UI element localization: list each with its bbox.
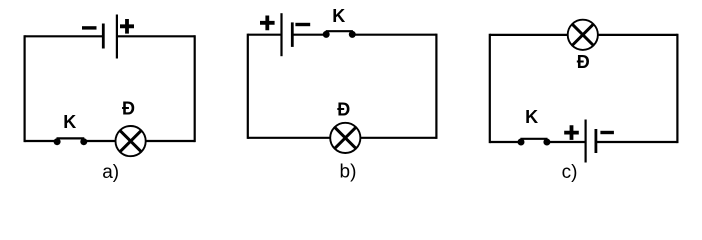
battery a long positive plate bbox=[116, 15, 118, 59]
svg-text:K: K bbox=[332, 6, 345, 26]
wire: c bottom segment corner to switch bbox=[490, 141, 521, 143]
svg-text:K: K bbox=[525, 107, 538, 127]
wire: b bottom-right segment from lamp bbox=[360, 137, 436, 139]
svg-text:K: K bbox=[63, 112, 76, 132]
switch K c: right contact dot bbox=[543, 139, 550, 146]
switch K a: closed lever bbox=[57, 137, 85, 139]
wire: b bottom-left segment to lamp bbox=[248, 137, 330, 139]
svg-text:b): b) bbox=[340, 162, 357, 183]
svg-text:c): c) bbox=[562, 162, 578, 183]
wire: a right side bbox=[194, 35, 196, 142]
wire: b left side bbox=[247, 34, 249, 139]
lamp D a: cross bbox=[120, 130, 141, 151]
wire: a left side bbox=[24, 35, 26, 142]
lamp D b: circle bbox=[330, 123, 360, 153]
wire: c top-right segment from lamp bbox=[598, 34, 678, 36]
svg-text:Đ: Đ bbox=[577, 52, 590, 72]
battery a short negative plate bbox=[102, 24, 105, 49]
wire: a top-left segment bbox=[25, 35, 103, 37]
svg-text:a): a) bbox=[102, 162, 119, 183]
wire: c top-left segment to lamp bbox=[490, 34, 568, 36]
wire: b top segment battery to switch bbox=[292, 34, 326, 36]
minus sign a bbox=[82, 26, 97, 29]
switch K b: closed lever bbox=[326, 30, 353, 32]
wire: c segment switch to battery bbox=[547, 141, 586, 143]
wire: c right side bbox=[676, 34, 678, 143]
switch K a: right contact dot bbox=[80, 138, 87, 145]
wire: b top segment corner to battery bbox=[248, 34, 282, 36]
wire: a bottom-left segment to switch bbox=[25, 140, 57, 142]
wire: a bottom-right segment from lamp bbox=[146, 140, 195, 142]
plus sign c bbox=[564, 125, 579, 140]
switch K c: left contact dot bbox=[518, 139, 525, 146]
switch K c: closed lever bbox=[520, 138, 547, 140]
battery b long positive plate bbox=[280, 13, 282, 56]
lamp D a: circle bbox=[116, 126, 146, 156]
wire: b right side bbox=[435, 34, 437, 139]
wire: b top segment switch to corner bbox=[352, 34, 436, 36]
minus sign c bbox=[600, 131, 614, 134]
battery c long positive plate bbox=[584, 120, 586, 163]
svg-text:Đ: Đ bbox=[122, 99, 135, 119]
svg-text:Đ: Đ bbox=[337, 100, 350, 120]
wire: c segment battery to corner bbox=[596, 141, 678, 143]
wire: a segment switch to lamp bbox=[84, 140, 116, 142]
wire: a top-right segment bbox=[117, 35, 195, 37]
plus sign a bbox=[120, 19, 134, 34]
wire: c left side bbox=[489, 34, 491, 143]
minus sign b bbox=[295, 23, 310, 26]
lamp D c: circle bbox=[568, 20, 598, 50]
lamp D c: cross bbox=[572, 24, 593, 45]
battery c short negative plate bbox=[595, 129, 598, 153]
lamp D b: cross bbox=[335, 127, 356, 148]
switch K b: right contact dot bbox=[349, 31, 356, 38]
plus sign b bbox=[260, 16, 275, 31]
switch K a: left contact dot bbox=[54, 138, 61, 145]
switch K b: left contact dot bbox=[323, 31, 330, 38]
battery b short negative plate bbox=[291, 22, 294, 47]
